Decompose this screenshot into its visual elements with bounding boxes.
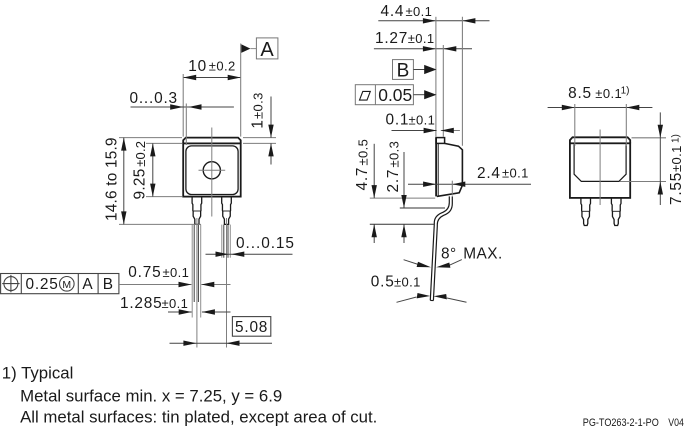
svg-text:±0.1: ±0.1 [406, 4, 433, 19]
svg-text:0.25: 0.25 [26, 276, 59, 293]
dimension 9.25 ±0.2 [132, 141, 183, 200]
svg-text:1): 1) [621, 86, 630, 97]
front view mounting hole [203, 162, 220, 179]
dimension 1 ±0.3 (tab height) [243, 92, 276, 164]
front view left lead centerline [196, 218, 198, 348]
svg-text:±0.1: ±0.1 [163, 265, 190, 280]
side view lead (S-bend, left face) [430, 196, 449, 300]
svg-text:MAX.: MAX. [463, 246, 503, 263]
front view right lead centerline [226, 218, 228, 348]
svg-text:±0.1: ±0.1 [394, 274, 421, 289]
back view left lead [581, 198, 591, 226]
dimension 4.7 ±0.5 [354, 139, 377, 243]
side view lead end cut [430, 299, 433, 301]
seating plane line [370, 223, 435, 225]
svg-text:1: 1 [249, 119, 266, 128]
dimension 8° MAX. [404, 246, 503, 268]
svg-text:±0.1: ±0.1 [408, 31, 435, 46]
svg-text:±0.1: ±0.1 [409, 112, 436, 127]
svg-text:B: B [397, 60, 410, 81]
extension line tab back [435, 17, 437, 137]
svg-text:1): 1) [670, 134, 681, 143]
dimension 14.6 to 15.9 [104, 137, 202, 224]
svg-text:0...0.15: 0...0.15 [236, 235, 295, 252]
extension line tab front [442, 45, 444, 137]
svg-text:B: B [103, 276, 114, 293]
svg-text:±0.2: ±0.2 [133, 141, 148, 167]
back view right lead [611, 198, 621, 226]
back view tab strip [570, 137, 630, 143]
svg-text:±0.5: ±0.5 [356, 139, 371, 166]
datum A flag [241, 38, 278, 61]
svg-text:±0.3: ±0.3 [251, 92, 266, 119]
extension line A (body bottom level) [370, 197, 435, 199]
svg-text:8.5: 8.5 [568, 85, 592, 102]
dimension 7.55 ±0.1 1) [620, 112, 685, 205]
dimension 8.5 ±0.1 1) [548, 85, 653, 146]
svg-text:8°: 8° [441, 246, 457, 263]
svg-text:A: A [260, 39, 274, 61]
datum B flag [393, 60, 437, 82]
svg-text:1.27: 1.27 [375, 30, 408, 47]
svg-text:2.7: 2.7 [385, 169, 402, 193]
svg-text:9.25: 9.25 [132, 168, 149, 199]
front view body outer rect [183, 143, 241, 196]
svg-text:1.285: 1.285 [120, 295, 163, 312]
flatness frame 0.05 [355, 85, 436, 105]
dimension 1.27 ±0.1 [374, 30, 472, 52]
side view tab inner line [437, 144, 439, 196]
dimension 0...0.3 [130, 90, 234, 145]
svg-text:±0.2: ±0.2 [209, 59, 236, 74]
front view vertical centerline [211, 128, 213, 217]
side view tab top lip [436, 138, 445, 144]
svg-text:5.08: 5.08 [235, 319, 268, 336]
dimension 0.75 ±0.1 with FCF leader [119, 264, 231, 287]
dimension 2.4 ±0.1 [408, 165, 531, 196]
svg-text:1) Typical: 1) Typical [2, 364, 74, 383]
dimension 10 ±0.2 [183, 44, 241, 137]
svg-text:PG-TO263-2-1-PO: PG-TO263-2-1-PO [583, 417, 659, 429]
svg-text:10: 10 [188, 58, 207, 75]
svg-text:±0.1: ±0.1 [502, 166, 529, 181]
back view body outer rect [570, 143, 630, 198]
dimension 2.7 ±0.3 [385, 141, 407, 243]
dimension 4.4 ±0.1 [378, 3, 489, 24]
svg-text:±0.1: ±0.1 [669, 145, 684, 172]
side view tab back line [435, 138, 437, 197]
front view left lead continuation lines [192, 225, 201, 318]
front view left lead [192, 197, 202, 224]
dimension 0.5 ±0.1 (lead thickness) [371, 274, 467, 303]
svg-text:All metal surfaces: tin plated: All metal surfaces: tin plated, except a… [20, 408, 377, 427]
svg-text:0.05: 0.05 [378, 85, 412, 105]
front view body inner chamfer rect [186, 146, 238, 195]
front view horizontal centerline of hole [199, 169, 226, 171]
svg-text:7.55: 7.55 [668, 172, 685, 205]
svg-text:4.7: 4.7 [354, 167, 371, 191]
svg-text:Metal surface min. x = 7.25, y: Metal surface min. x = 7.25, y = 6.9 [20, 387, 282, 406]
svg-text:±0.3: ±0.3 [386, 141, 401, 168]
front view tab strip [183, 138, 241, 144]
front view right lead [222, 197, 232, 224]
dimension 1.285 ±0.1 [120, 295, 231, 315]
svg-text:0.5: 0.5 [371, 274, 395, 291]
svg-text:14.6 to 15.9: 14.6 to 15.9 [104, 137, 121, 221]
side view lead (right face) [433, 196, 452, 300]
svg-text:M: M [62, 279, 71, 291]
back view centerline [599, 130, 601, 206]
side view body outline [437, 143, 463, 196]
svg-text:0.75: 0.75 [128, 264, 161, 281]
extension line body front [461, 17, 463, 146]
extension line B (lead knee level) [400, 207, 445, 209]
svg-text:±0.1: ±0.1 [162, 296, 189, 311]
boxed dimension 5.08 [170, 317, 273, 346]
svg-text:4.4: 4.4 [381, 3, 405, 20]
dimension 0...0.15 [206, 235, 295, 257]
svg-text:2.4: 2.4 [477, 165, 501, 182]
position feature control frame ⊕ 0.25 M A B [1, 274, 119, 294]
dimension 0.1 ±0.1 [386, 112, 460, 134]
svg-text:V04: V04 [668, 417, 684, 429]
svg-text:A: A [82, 276, 93, 293]
svg-text:0...0.3: 0...0.3 [130, 90, 178, 107]
back view metal tab outline [574, 144, 626, 181]
svg-text:0.1: 0.1 [386, 112, 410, 129]
svg-text:±0.1: ±0.1 [595, 86, 622, 101]
front view right lead continuation lines [222, 225, 231, 258]
